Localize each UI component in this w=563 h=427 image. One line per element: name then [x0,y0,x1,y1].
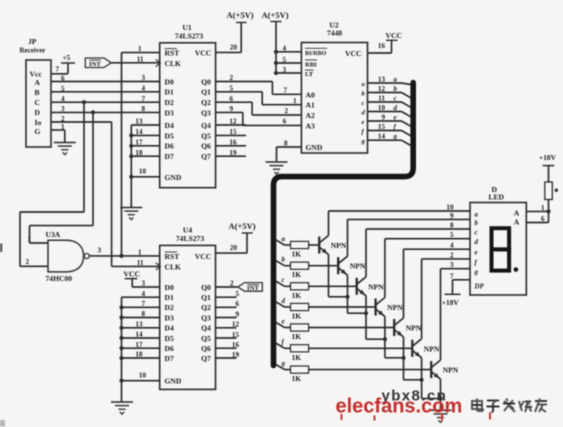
svg-text:5: 5 [61,85,65,93]
svg-text:D4: D4 [165,121,174,130]
svg-text:6: 6 [541,215,545,223]
svg-text:b: b [394,86,398,93]
svg-text:5: 5 [229,85,233,93]
svg-text:A(+5V): A(+5V) [229,221,256,231]
svg-text:Q3: Q3 [201,313,211,322]
svg-text:VCC: VCC [386,31,402,40]
svg-text:1: 1 [28,236,32,244]
svg-text:12: 12 [229,118,237,126]
svg-text:D0: D0 [165,77,174,86]
svg-text:B: B [35,88,40,97]
svg-text:1K: 1K [292,270,302,279]
svg-text:1: 1 [138,45,142,53]
svg-text:e: e [475,250,478,257]
svg-text:D1: D1 [165,293,174,302]
svg-text:Q6: Q6 [201,344,211,353]
svg-text:74LS273: 74LS273 [175,32,203,41]
svg-text:Q2: Q2 [201,303,211,312]
svg-text:2: 2 [450,251,454,259]
svg-text:INT: INT [89,61,101,68]
svg-text:e: e [362,119,365,126]
svg-text:74LS273: 74LS273 [176,234,204,243]
svg-text:c: c [475,230,478,237]
svg-text:Q3: Q3 [201,108,211,117]
svg-text:Receiver: Receiver [20,47,46,55]
svg-text:Q7: Q7 [201,354,211,363]
svg-text:A: A [514,218,520,227]
svg-text:NPN: NPN [368,282,384,291]
svg-text:CLK: CLK [165,262,182,271]
svg-text:12: 12 [378,85,386,93]
svg-text:1K: 1K [292,332,302,341]
svg-text:1K: 1K [292,291,302,300]
svg-text:5: 5 [450,231,454,239]
svg-text:1: 1 [293,97,297,105]
svg-text:11: 11 [378,95,385,103]
svg-text:10: 10 [446,204,454,212]
svg-text:Io: Io [35,118,42,127]
svg-text:a: a [394,77,398,84]
svg-text:1K: 1K [292,312,302,321]
svg-text:19: 19 [229,149,237,157]
svg-text:A: A [514,209,520,218]
svg-text:Q5: Q5 [201,131,211,140]
svg-text:1: 1 [541,204,545,212]
svg-text:15: 15 [229,128,237,136]
svg-text:GND: GND [165,173,182,182]
svg-text:A0: A0 [306,90,315,99]
svg-text:9: 9 [235,310,239,318]
svg-text:14: 14 [378,133,386,141]
svg-text:NPN: NPN [443,366,459,375]
svg-text:c: c [362,100,365,107]
svg-text:A2: A2 [306,111,315,120]
svg-text:10: 10 [378,104,386,112]
svg-text:4: 4 [61,95,65,103]
svg-text:NPN: NPN [387,303,403,312]
svg-text:13: 13 [378,76,386,84]
svg-text:3: 3 [282,66,286,74]
svg-text:+18V: +18V [539,153,557,162]
svg-text:a: a [475,212,479,219]
svg-text:7: 7 [56,66,60,74]
svg-text:A(+5V): A(+5V) [262,10,289,20]
svg-text:VCC: VCC [195,49,211,58]
svg-text:RBI: RBI [305,61,317,68]
svg-text:NPN: NPN [331,241,347,250]
svg-text:g: g [474,269,479,276]
svg-text:a: a [282,236,286,243]
svg-text:NPN: NPN [424,344,440,353]
svg-text:11: 11 [137,56,144,64]
svg-text:6: 6 [283,118,287,126]
svg-text:5: 5 [282,56,286,64]
svg-text:7: 7 [141,95,145,103]
svg-text:7448: 7448 [327,29,342,38]
svg-text:16: 16 [378,42,386,50]
svg-text:5: 5 [235,290,239,298]
svg-text:9: 9 [381,114,385,122]
svg-text:g: g [281,360,286,367]
svg-text:Q1: Q1 [201,293,211,302]
svg-text:D5: D5 [165,334,174,343]
svg-text:3: 3 [141,74,145,82]
svg-text:LED: LED [488,193,504,202]
svg-text:4: 4 [141,85,145,93]
svg-text:15: 15 [378,123,386,131]
svg-text:d: d [394,105,398,112]
svg-text:20: 20 [230,44,238,52]
svg-text:GND: GND [165,377,182,386]
svg-text:4: 4 [282,45,286,53]
svg-text:D6: D6 [165,344,174,353]
svg-text:6: 6 [235,300,239,308]
svg-text:BI/RBO: BI/RBO [305,51,327,57]
svg-text:LT: LT [305,71,314,78]
svg-text:Q4: Q4 [201,121,211,130]
svg-text:2: 2 [61,115,65,123]
svg-text:VCC: VCC [195,252,211,261]
svg-text:Q6: Q6 [201,142,211,151]
svg-text:e: e [282,318,285,325]
svg-text:+5: +5 [63,54,71,62]
svg-text:10: 10 [139,372,147,380]
svg-text:G: G [35,127,41,136]
svg-text:NPN: NPN [406,324,422,333]
svg-text:3: 3 [98,247,102,255]
svg-text:8: 8 [450,222,454,230]
svg-text:GND: GND [306,143,323,152]
svg-text:A1: A1 [306,101,315,110]
svg-text:6: 6 [229,95,233,103]
svg-text:10: 10 [139,168,147,176]
svg-text:INT: INT [247,285,259,292]
svg-text:8: 8 [141,105,145,113]
svg-text:U4: U4 [183,226,192,235]
svg-text:DP: DP [474,284,485,291]
svg-text:3: 3 [61,105,65,113]
svg-text:D3: D3 [165,108,174,117]
svg-text:e: e [394,115,397,122]
svg-text:2: 2 [284,107,288,115]
svg-text:1K: 1K [292,250,302,259]
svg-text:3: 3 [450,261,454,269]
svg-text:D1: D1 [165,88,174,97]
svg-text:D6: D6 [165,142,174,151]
svg-text:9: 9 [450,212,454,220]
svg-text:C: C [35,98,40,107]
svg-text:Q5: Q5 [201,334,211,343]
svg-text:11: 11 [137,259,144,267]
svg-text:8: 8 [284,140,288,148]
svg-text:d: d [282,298,286,305]
svg-text:Q0: Q0 [201,77,211,86]
svg-text:g: g [361,138,366,145]
svg-text:Q2: Q2 [201,98,211,107]
svg-text:+18V: +18V [442,298,460,307]
svg-text:19: 19 [232,351,240,359]
svg-text:d: d [475,239,479,246]
svg-text:2: 2 [229,74,233,82]
svg-text:JP: JP [28,37,37,46]
svg-text:D7: D7 [165,354,174,363]
svg-text:D2: D2 [165,98,174,107]
svg-text:A3: A3 [306,121,315,130]
svg-text:1K: 1K [292,353,302,362]
svg-text:U3A: U3A [46,230,61,239]
svg-text:D7: D7 [165,152,174,161]
svg-text:VCC: VCC [345,49,361,58]
svg-text:Q4: Q4 [201,324,211,333]
svg-text:4: 4 [450,242,454,250]
svg-text:1K: 1K [292,374,302,383]
svg-text:c: c [282,277,285,284]
svg-text:D: D [35,108,41,117]
svg-text:VCC: VCC [124,269,140,278]
svg-text:Q1: Q1 [201,88,211,97]
svg-text:D5: D5 [165,131,174,140]
svg-text:A: A [35,78,41,87]
svg-text:RST: RST [165,49,180,58]
svg-text:c: c [394,96,397,103]
svg-text:NPN: NPN [350,262,366,271]
svg-text:9: 9 [229,105,233,113]
svg-text:A(+5V): A(+5V) [227,10,254,20]
svg-text:D2: D2 [165,303,174,312]
svg-text:Q0: Q0 [201,283,211,292]
svg-text:15: 15 [232,331,240,339]
svg-text:CLK: CLK [165,59,182,68]
svg-text:D3: D3 [165,313,174,322]
svg-text:2: 2 [26,258,30,266]
svg-text:D0: D0 [165,283,174,292]
svg-text:RST: RST [165,252,180,261]
svg-text:Q7: Q7 [201,152,211,161]
svg-text:2: 2 [230,279,234,287]
svg-text:16: 16 [232,341,240,349]
svg-text:g: g [393,134,398,141]
svg-text:D4: D4 [165,324,174,333]
svg-text:b: b [475,220,479,227]
svg-text:6: 6 [61,75,65,83]
svg-text:7: 7 [283,86,287,94]
svg-text:16: 16 [229,139,237,147]
svg-text:elecfans.com: elecfans.com [336,396,463,418]
svg-text:12: 12 [232,321,240,329]
svg-text:20: 20 [230,244,238,252]
svg-text:74HC00: 74HC00 [46,274,73,283]
svg-text:b: b [282,257,286,264]
